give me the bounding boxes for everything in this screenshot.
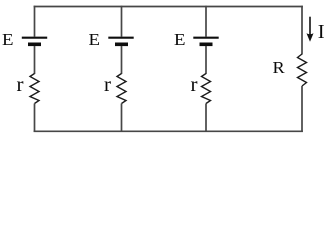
wire right side upper segment — [301, 6, 303, 55]
battery E1 short thick plate — [28, 42, 41, 46]
resistor r3 zigzag — [202, 74, 211, 104]
wire top bus — [34, 6, 303, 8]
wire bottom bus — [34, 130, 303, 132]
resistor r2 zigzag — [117, 74, 126, 104]
svg-text:r: r — [17, 72, 24, 96]
battery E3 short thick plate — [200, 42, 213, 46]
svg-text:r: r — [104, 72, 111, 96]
wire branch1 lower segment — [34, 104, 36, 133]
resistor R zigzag — [298, 54, 307, 86]
wire branch3 lower segment — [205, 104, 207, 133]
battery E2 long plate — [108, 37, 133, 39]
svg-text:I: I — [318, 21, 325, 43]
svg-text:E: E — [89, 30, 101, 49]
wire branch3 upper segment — [205, 6, 207, 37]
wire branch1 upper segment — [34, 6, 36, 37]
svg-text:r: r — [191, 72, 198, 96]
svg-text:E: E — [2, 30, 14, 49]
svg-text:R: R — [273, 58, 286, 77]
wire branch3 middle segment — [205, 46, 207, 74]
svg-text:E: E — [174, 30, 186, 49]
wire branch2 lower segment — [121, 104, 123, 133]
resistor r1 zigzag — [30, 74, 39, 104]
battery E1 long plate — [22, 37, 47, 39]
battery E2 short thick plate — [115, 42, 128, 46]
wire right side lower segment — [301, 86, 303, 132]
current arrow I shaft — [309, 17, 311, 37]
wire branch2 middle segment — [121, 46, 123, 74]
current arrow I head — [307, 33, 314, 42]
wire branch1 middle segment — [34, 46, 36, 74]
wire branch2 upper segment — [121, 6, 123, 37]
battery E3 long plate — [193, 37, 218, 39]
